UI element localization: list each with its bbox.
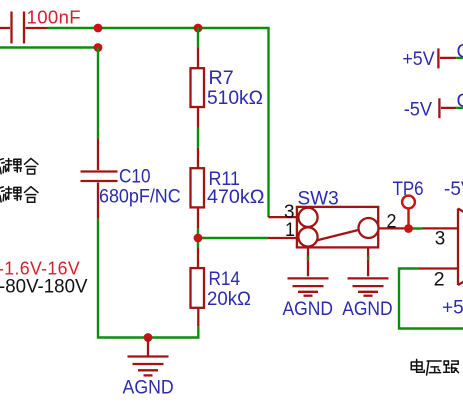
op-amp pin 2 stub bbox=[419, 267, 459, 269]
svg-text:2: 2 bbox=[434, 269, 445, 290]
wire to SW3 pin 1 bbox=[198, 237, 268, 239]
resistor R11 bbox=[191, 148, 205, 229]
capacitor C10 bbox=[81, 139, 118, 219]
junction divider tap bbox=[194, 234, 203, 243]
wire R7 to R11 bbox=[197, 128, 199, 148]
svg-text:R7: R7 bbox=[209, 68, 234, 89]
svg-text:-5V: -5V bbox=[404, 100, 433, 121]
chinese caption dian (voltage follower) bbox=[411, 359, 424, 372]
svg-text:AGND: AGND bbox=[283, 299, 334, 320]
svg-text:3: 3 bbox=[435, 229, 446, 250]
svg-text:C: C bbox=[457, 91, 463, 112]
wire R11 to R14 bbox=[197, 228, 199, 247]
chinese char ou1 (line1) bbox=[6, 158, 22, 172]
svg-text:C10: C10 bbox=[119, 167, 151, 188]
ground AGND bottom bbox=[128, 338, 169, 376]
wire top horizontal bbox=[48, 28, 269, 217]
wire down to C10 bbox=[97, 48, 99, 139]
svg-text:R14: R14 bbox=[209, 269, 241, 290]
svg-text:AGND: AGND bbox=[123, 377, 174, 398]
ground AGND under SW3 right bbox=[348, 278, 389, 295]
wire junction to R7 bbox=[197, 28, 199, 47]
svg-text:100nF: 100nF bbox=[27, 7, 82, 27]
wire speck left stub bbox=[307, 257, 309, 261]
svg-text:SW3: SW3 bbox=[298, 188, 339, 209]
resistor R7 bbox=[191, 47, 205, 127]
junction ground rail bbox=[144, 333, 153, 342]
chinese char ou2 (line2) bbox=[6, 187, 22, 201]
wire second horizontal from left edge bbox=[0, 46, 98, 48]
test point TP6 bbox=[402, 196, 415, 229]
junction TP6 bbox=[404, 224, 413, 233]
op-amp pin 3 stub bbox=[422, 227, 458, 229]
junction top bbox=[94, 24, 103, 33]
switch SW3 bbox=[268, 207, 406, 276]
svg-text:+5: +5 bbox=[442, 297, 463, 318]
resistor R14 bbox=[191, 247, 205, 326]
svg-text:2: 2 bbox=[387, 212, 397, 233]
svg-text:470kΩ: 470kΩ bbox=[207, 187, 265, 208]
power -5V bbox=[439, 98, 463, 118]
svg-text:680pF/NC: 680pF/NC bbox=[99, 186, 181, 207]
svg-text:20kΩ: 20kΩ bbox=[207, 289, 251, 310]
chinese annotation line2 (liu) partial char bbox=[0, 187, 6, 202]
junction lower bbox=[94, 43, 103, 52]
wire C10 bottom to ground rail bbox=[98, 219, 198, 338]
chinese caption ya bbox=[427, 361, 442, 375]
capacitor C? 100nF (left edge, partially visible) bbox=[0, 12, 48, 44]
svg-text:-1.6V-16V: -1.6V-16V bbox=[0, 259, 80, 279]
op-amp U? (partially visible) bbox=[458, 209, 463, 286]
wire speck right stub bbox=[367, 257, 369, 261]
svg-text:-80V-180V: -80V-180V bbox=[0, 277, 88, 298]
svg-text:TP6: TP6 bbox=[393, 179, 424, 200]
svg-text:-5V: -5V bbox=[444, 179, 463, 200]
svg-text:1: 1 bbox=[285, 220, 295, 241]
chinese char he1 (line1) bbox=[24, 158, 38, 174]
svg-text:AGND: AGND bbox=[342, 299, 393, 320]
wire op-amp pin2 loop bbox=[399, 269, 463, 329]
svg-text:+5V: +5V bbox=[402, 49, 434, 70]
svg-text:C: C bbox=[457, 42, 463, 63]
svg-text:510kΩ: 510kΩ bbox=[207, 88, 263, 109]
chinese annotation line1 (liu) partial char bbox=[0, 159, 6, 174]
junction at R7 branch bbox=[194, 24, 203, 33]
power +5V bbox=[438, 48, 463, 68]
chinese caption gen bbox=[444, 361, 459, 373]
wire SW3 pin2 to op-amp bbox=[406, 227, 422, 229]
chinese char he2 (line2) bbox=[24, 187, 38, 203]
ground AGND under SW3 left bbox=[288, 278, 329, 295]
